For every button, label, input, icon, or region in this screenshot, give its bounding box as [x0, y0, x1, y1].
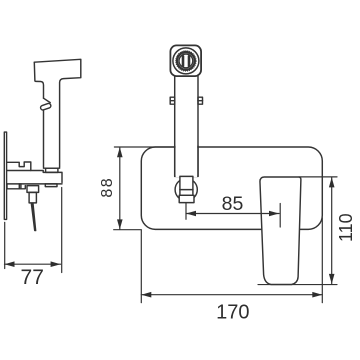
plate top extension line	[114, 146, 174, 148]
110 down arrow	[329, 274, 335, 284]
dim 110 top extension	[299, 176, 337, 178]
knurled ring	[177, 52, 195, 70]
svg-text:77: 77	[21, 266, 44, 289]
under-body ledge	[7, 184, 25, 189]
handle bell bottom	[44, 167, 60, 169]
dim 88 bottom extension	[114, 229, 142, 231]
inner circle	[179, 54, 193, 68]
top detail: square head	[170, 45, 201, 76]
170 left arrow	[141, 292, 151, 298]
85 right arrow	[269, 211, 279, 217]
dim 85 leader from nozzle	[185, 203, 187, 220]
lever handle (side view)	[34, 59, 81, 167]
dim 77 extension lines	[4, 222, 6, 268]
svg-text:85: 85	[222, 193, 244, 215]
dim 110 bottom extension	[258, 284, 337, 286]
dim 110 line	[331, 177, 333, 284]
110 up arrow	[329, 177, 335, 187]
collar under bell	[46, 168, 58, 172]
nozzle	[180, 176, 193, 195]
dimension labels	[21, 177, 357, 323]
88 up arrow	[117, 147, 123, 157]
85 left arrow	[186, 211, 196, 217]
svg-text:110: 110	[336, 213, 356, 242]
left clip tab	[170, 97, 175, 104]
body bottom edge	[175, 175, 198, 177]
wall plate (side view, left figure)	[4, 132, 6, 219]
dim 88 line	[119, 147, 121, 229]
mounting plate (front view, right figure)	[141, 147, 322, 229]
foot under body	[45, 184, 57, 187]
svg-text:170: 170	[216, 301, 249, 323]
dim 77 line	[5, 263, 61, 265]
dim 170 extension lines	[140, 230, 142, 303]
knurl bars	[182, 55, 191, 67]
dim 170 line	[141, 294, 322, 296]
column body (front view)	[175, 76, 198, 176]
drain valve block	[27, 186, 39, 193]
88 down arrow	[117, 219, 123, 229]
ball outlet	[175, 179, 197, 201]
handle centre tick	[279, 204, 281, 228]
pull rod	[31, 203, 37, 231]
right clip tab	[198, 97, 203, 104]
handle paddle (front view)	[260, 177, 301, 285]
valve body band (side view)	[7, 171, 62, 183]
set-screw peg on handle stem	[44, 98, 51, 102]
77 right arrow	[51, 261, 61, 267]
outer circle	[173, 48, 199, 74]
svg-text:88: 88	[99, 177, 116, 198]
white mask over column region	[176, 146, 198, 177]
77 left arrow	[5, 261, 15, 267]
arrowheads	[5, 147, 335, 297]
dim 85 line	[186, 213, 279, 215]
fittings on top of body	[7, 162, 31, 171]
170 right arrow	[312, 292, 322, 298]
